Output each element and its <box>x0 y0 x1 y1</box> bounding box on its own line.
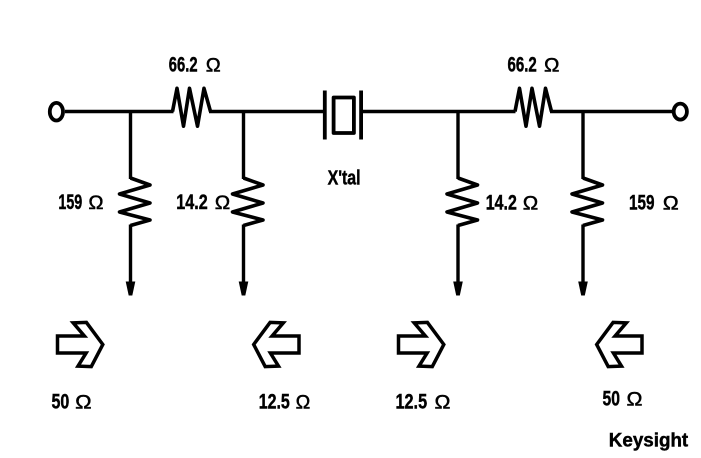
resistor R1 66.2 ohm series left <box>173 88 211 126</box>
resistor R3 159 ohm shunt <box>120 178 151 226</box>
svg-text:Ω: Ω <box>435 392 451 413</box>
wire: R3 to arrowhead <box>129 225 132 283</box>
svg-text:14.2: 14.2 <box>486 191 517 214</box>
resistor R4 14.2 ohm shunt <box>233 178 264 226</box>
svg-text:Ω: Ω <box>88 193 103 214</box>
crystal X1 right plate <box>359 91 363 140</box>
svg-text:Ω: Ω <box>296 393 311 414</box>
crystal X1 left plate <box>323 91 327 140</box>
block arrow: load impedance 12.5 ohm (points left) <box>254 322 299 366</box>
wire: junction to shunt resistor R4 <box>242 110 245 179</box>
block arrow: load impedance 50 ohm (points left) <box>597 322 642 366</box>
svg-text:12.5: 12.5 <box>259 391 290 414</box>
svg-text:50: 50 <box>603 388 620 411</box>
wire: junction to shunt resistor R3 <box>129 110 132 179</box>
block arrow: source impedance 50 ohm (points right) <box>58 322 103 366</box>
svg-text:X'tal: X'tal <box>328 167 361 190</box>
terminal T1 (left port) <box>50 103 63 121</box>
block arrow: source impedance 12.5 ohm (points right) <box>399 322 444 366</box>
arrowhead (current direction down, R6) <box>578 282 588 296</box>
wire: R4 to arrowhead <box>242 225 245 283</box>
svg-text:Ω: Ω <box>627 390 643 411</box>
svg-text:Ω: Ω <box>523 193 539 214</box>
arrowhead (current direction down, R4) <box>239 282 249 296</box>
svg-text:159: 159 <box>629 191 655 214</box>
resistor R5 14.2 ohm shunt <box>447 178 478 226</box>
crystal X1 body <box>334 98 354 134</box>
wire: crystal X1 to resistor R2 <box>361 110 516 113</box>
svg-text:Ω: Ω <box>206 56 221 77</box>
svg-text:14.2: 14.2 <box>176 191 207 214</box>
svg-text:Keysight: Keysight <box>609 431 689 452</box>
wire: junction to shunt resistor R5 <box>456 110 459 179</box>
svg-text:66.2: 66.2 <box>508 54 537 77</box>
svg-text:Ω: Ω <box>75 393 92 414</box>
svg-text:Ω: Ω <box>663 193 679 214</box>
svg-text:Ω: Ω <box>215 193 231 214</box>
arrowhead (current direction down, R5) <box>453 282 463 296</box>
wire: R5 to arrowhead <box>456 225 459 283</box>
svg-text:12.5: 12.5 <box>396 390 428 413</box>
resistor R6 159 ohm shunt <box>572 178 603 226</box>
svg-text:66.2: 66.2 <box>169 54 198 77</box>
wire: R1 to crystal X1 <box>209 110 325 113</box>
terminal T2 (right port) <box>674 104 687 120</box>
svg-text:50: 50 <box>52 391 70 414</box>
wire: R2 to terminal T2 <box>550 110 674 113</box>
wire: R6 to arrowhead <box>581 225 584 283</box>
resistor R2 66.2 ohm series right <box>515 88 552 126</box>
svg-text:159: 159 <box>58 191 82 214</box>
svg-text:Ω: Ω <box>544 56 560 77</box>
arrowhead (current direction down, R3) <box>126 282 136 296</box>
wire: junction to shunt resistor R6 <box>581 110 584 179</box>
wire: T1 to resistor R1 <box>65 110 174 113</box>
